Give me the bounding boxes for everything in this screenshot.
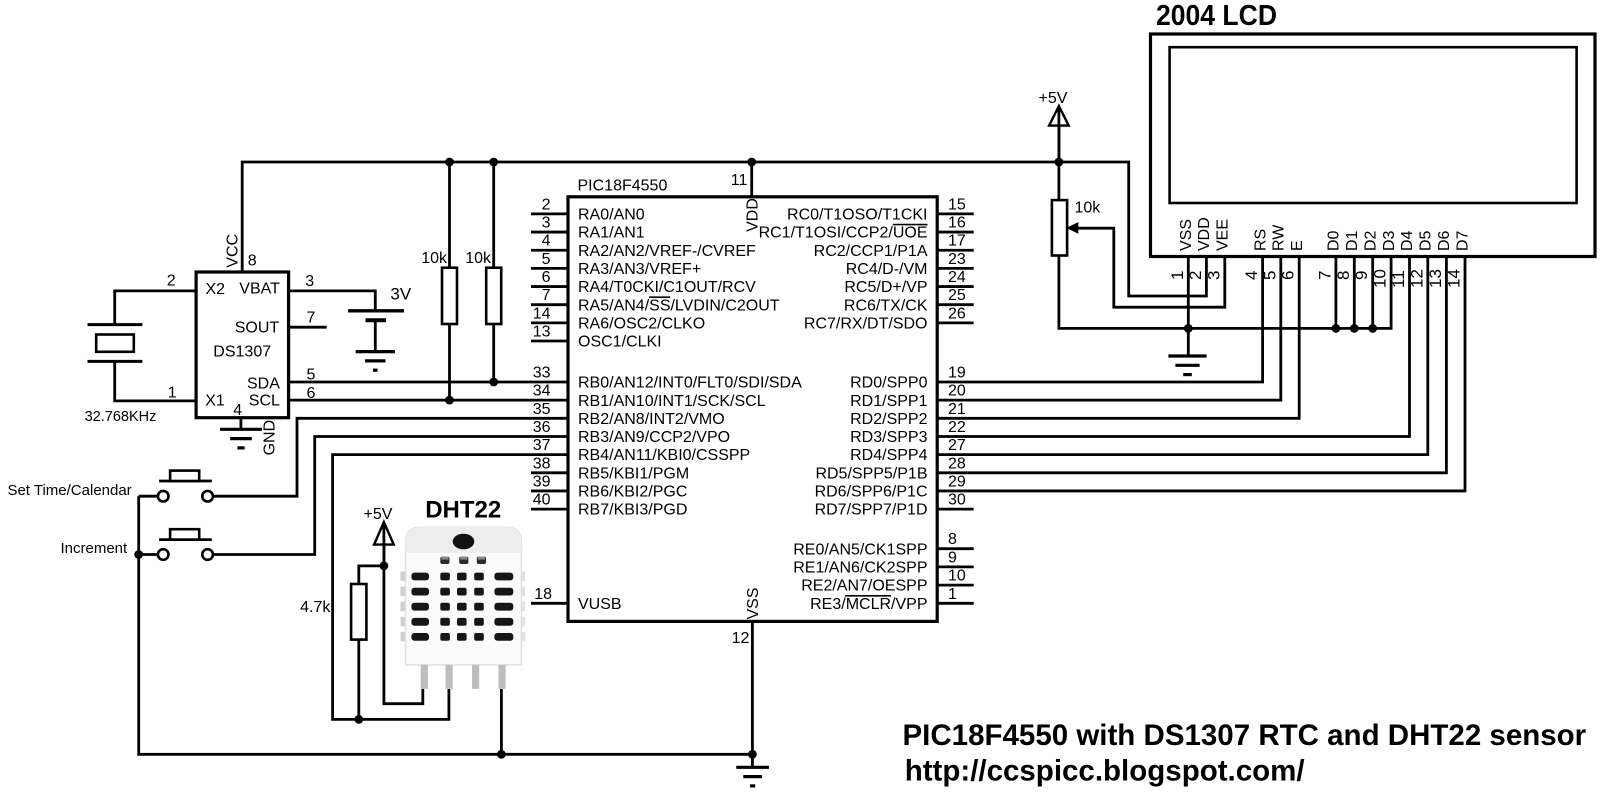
svg-text:RB4/AN11/KBI0/CSSPP: RB4/AN11/KBI0/CSSPP xyxy=(578,447,750,464)
svg-text:33: 33 xyxy=(533,365,551,382)
svg-text:2: 2 xyxy=(167,272,176,289)
svg-text:3: 3 xyxy=(542,215,551,232)
svg-text:4: 4 xyxy=(542,233,551,250)
svg-text:VBAT: VBAT xyxy=(239,280,280,297)
svg-text:8: 8 xyxy=(1334,271,1353,280)
svg-text:VSS: VSS xyxy=(1178,219,1195,251)
svg-text:5: 5 xyxy=(542,251,551,268)
svg-text:Increment: Increment xyxy=(60,540,128,557)
svg-text:RA1/AN1: RA1/AN1 xyxy=(578,225,645,242)
svg-text:25: 25 xyxy=(948,287,966,304)
svg-text:8: 8 xyxy=(248,252,257,269)
svg-text:RD0/SPP0: RD0/SPP0 xyxy=(850,375,927,392)
svg-text:PIC18F4550 with DS1307 RTC and: PIC18F4550 with DS1307 RTC and DHT22 sen… xyxy=(903,719,1587,752)
svg-text:24: 24 xyxy=(948,269,966,286)
svg-text:26: 26 xyxy=(948,305,966,322)
svg-text:E: E xyxy=(1289,240,1306,251)
svg-text:3: 3 xyxy=(1204,271,1223,280)
svg-text:29: 29 xyxy=(948,473,966,490)
svg-text:10k: 10k xyxy=(465,250,492,267)
svg-text:D1: D1 xyxy=(1344,230,1361,251)
svg-text:RC6/TX/CK: RC6/TX/CK xyxy=(844,297,928,314)
svg-text:RE0/AN5/CK1SPP: RE0/AN5/CK1SPP xyxy=(793,541,927,558)
svg-text:39: 39 xyxy=(533,473,551,490)
svg-text:RB1/AN10/INT1/SCK/SCL: RB1/AN10/INT1/SCK/SCL xyxy=(578,393,766,410)
svg-text:7: 7 xyxy=(307,309,316,326)
svg-text:RD3/SPP3: RD3/SPP3 xyxy=(850,429,927,446)
svg-text:4: 4 xyxy=(1242,271,1261,280)
svg-text:RE1/AN6/CK2SPP: RE1/AN6/CK2SPP xyxy=(793,560,927,577)
svg-text:40: 40 xyxy=(533,492,551,509)
svg-text:3: 3 xyxy=(305,273,314,290)
svg-text:4: 4 xyxy=(233,402,242,419)
svg-text:RW: RW xyxy=(1271,224,1288,251)
svg-text:RD2/SPP2: RD2/SPP2 xyxy=(850,411,927,428)
svg-text:35: 35 xyxy=(533,401,551,418)
svg-text:X1: X1 xyxy=(205,393,225,410)
svg-text:RD5/SPP5/P1B: RD5/SPP5/P1B xyxy=(815,465,927,482)
svg-text:OSC1/CLKI: OSC1/CLKI xyxy=(578,334,662,351)
svg-text:D5: D5 xyxy=(1418,230,1435,251)
svg-text:VCC: VCC xyxy=(224,234,241,268)
svg-text:36: 36 xyxy=(533,419,551,436)
svg-text:1: 1 xyxy=(1168,271,1187,280)
svg-text:5: 5 xyxy=(1260,271,1279,280)
svg-text:30: 30 xyxy=(948,492,966,509)
svg-text:RE2/AN7/OESPP: RE2/AN7/OESPP xyxy=(801,578,927,595)
svg-text:RB7/KBI3/PGD: RB7/KBI3/PGD xyxy=(578,502,687,519)
svg-text:RA6/OSC2/CLKO: RA6/OSC2/CLKO xyxy=(578,315,705,332)
svg-text:RB6/KBI2/PGC: RB6/KBI2/PGC xyxy=(578,484,687,501)
svg-text:GND: GND xyxy=(262,420,279,456)
svg-text:http://ccspicc.blogspot.com/: http://ccspicc.blogspot.com/ xyxy=(905,755,1305,788)
svg-text:3V: 3V xyxy=(390,285,411,304)
svg-text:6: 6 xyxy=(307,385,316,402)
svg-text:VEE: VEE xyxy=(1215,219,1232,251)
svg-text:RC7/RX/DT/SDO: RC7/RX/DT/SDO xyxy=(804,315,928,332)
svg-text:38: 38 xyxy=(533,455,551,472)
svg-text:28: 28 xyxy=(948,455,966,472)
svg-text:23: 23 xyxy=(948,251,966,268)
svg-text:RD1/SPP1: RD1/SPP1 xyxy=(850,393,927,410)
svg-text:8: 8 xyxy=(948,531,957,548)
svg-text:11: 11 xyxy=(731,172,748,189)
svg-text:20: 20 xyxy=(948,383,966,400)
svg-text:34: 34 xyxy=(533,383,551,400)
svg-text:RS: RS xyxy=(1252,229,1269,251)
svg-text:Set Time/Calendar: Set Time/Calendar xyxy=(7,482,131,499)
svg-text:PIC18F4550: PIC18F4550 xyxy=(578,177,668,194)
svg-text:7: 7 xyxy=(542,287,551,304)
svg-text:DS1307: DS1307 xyxy=(213,343,271,360)
svg-text:27: 27 xyxy=(948,437,966,454)
svg-text:D4: D4 xyxy=(1399,230,1416,251)
svg-text:15: 15 xyxy=(948,196,966,213)
svg-text:X2: X2 xyxy=(206,281,226,298)
svg-text:RC0/T1OSO/T1CKI: RC0/T1OSO/T1CKI xyxy=(787,207,927,224)
svg-text:SCL: SCL xyxy=(249,393,280,410)
svg-text:1: 1 xyxy=(948,586,957,603)
svg-text:2: 2 xyxy=(542,196,551,213)
svg-text:14: 14 xyxy=(1445,269,1464,288)
svg-text:32.768KHz: 32.768KHz xyxy=(85,409,157,425)
svg-text:SOUT: SOUT xyxy=(235,319,280,336)
svg-text:22: 22 xyxy=(948,419,966,436)
svg-text:11: 11 xyxy=(1389,270,1408,288)
svg-text:12: 12 xyxy=(732,630,750,647)
svg-text:RA2/AN2/VREF-/CVREF: RA2/AN2/VREF-/CVREF xyxy=(578,243,756,260)
svg-text:2: 2 xyxy=(1186,271,1205,280)
svg-text:12: 12 xyxy=(1407,269,1426,288)
svg-text:5: 5 xyxy=(307,367,316,384)
svg-text:6: 6 xyxy=(1279,271,1298,280)
svg-text:VDD: VDD xyxy=(745,198,762,232)
svg-text:RD7/SPP7/P1D: RD7/SPP7/P1D xyxy=(815,502,928,519)
svg-text:D2: D2 xyxy=(1362,230,1379,251)
svg-text:RA0/AN0: RA0/AN0 xyxy=(578,207,645,224)
svg-text:RC4/D-/VM: RC4/D-/VM xyxy=(846,261,928,278)
svg-text:RB3/AN9/CCP2/VPO: RB3/AN9/CCP2/VPO xyxy=(578,429,730,446)
svg-text:16: 16 xyxy=(948,215,966,232)
svg-text:RC5/D+/VP: RC5/D+/VP xyxy=(844,279,927,296)
svg-text:SDA: SDA xyxy=(247,375,280,392)
svg-text:17: 17 xyxy=(948,233,966,250)
svg-text:10k: 10k xyxy=(421,250,448,267)
svg-text:9: 9 xyxy=(1352,271,1371,280)
svg-text:RD4/SPP4: RD4/SPP4 xyxy=(850,447,927,464)
svg-text:1: 1 xyxy=(168,385,177,402)
svg-text:37: 37 xyxy=(533,437,551,454)
svg-text:D3: D3 xyxy=(1381,230,1398,251)
svg-text:RB5/KBI1/PGM: RB5/KBI1/PGM xyxy=(578,465,689,482)
svg-text:D6: D6 xyxy=(1436,230,1453,251)
svg-text:DHT22: DHT22 xyxy=(425,497,501,524)
svg-text:19: 19 xyxy=(948,365,966,382)
svg-text:RB0/AN12/INT0/FLT0/SDI/SDA: RB0/AN12/INT0/FLT0/SDI/SDA xyxy=(578,375,802,392)
svg-text:+5V: +5V xyxy=(1039,90,1068,107)
svg-text:D7: D7 xyxy=(1455,230,1472,251)
svg-text:9: 9 xyxy=(948,549,957,566)
svg-text:14: 14 xyxy=(533,305,551,322)
svg-text:10: 10 xyxy=(948,568,966,585)
svg-text:10k: 10k xyxy=(1075,200,1102,217)
svg-text:4.7k: 4.7k xyxy=(300,599,331,616)
svg-text:21: 21 xyxy=(948,401,966,418)
svg-text:13: 13 xyxy=(1426,269,1445,288)
svg-text:10: 10 xyxy=(1371,269,1390,288)
svg-text:RA3/AN3/VREF+: RA3/AN3/VREF+ xyxy=(578,261,701,278)
svg-text:RA4/T0CKI/C1OUT/RCV: RA4/T0CKI/C1OUT/RCV xyxy=(578,279,756,296)
svg-text:RA5/AN4/SS/LVDIN/C2OUT: RA5/AN4/SS/LVDIN/C2OUT xyxy=(578,297,780,314)
svg-text:RE3/MCLR/VPP: RE3/MCLR/VPP xyxy=(810,596,927,613)
svg-text:+5V: +5V xyxy=(364,506,393,523)
svg-text:RB2/AN8/INT2/VMO: RB2/AN8/INT2/VMO xyxy=(578,411,725,428)
svg-text:VUSB: VUSB xyxy=(578,596,622,613)
svg-text:VSS: VSS xyxy=(745,587,762,619)
svg-text:6: 6 xyxy=(542,269,551,286)
svg-text:RD6/SPP6/P1C: RD6/SPP6/P1C xyxy=(815,484,928,501)
svg-text:2004 LCD: 2004 LCD xyxy=(1156,0,1277,32)
svg-text:RC1/T1OSI/CCP2/UOE: RC1/T1OSI/CCP2/UOE xyxy=(759,225,928,242)
svg-text:VDD: VDD xyxy=(1196,217,1213,251)
svg-text:13: 13 xyxy=(533,324,551,341)
svg-text:18: 18 xyxy=(534,586,552,603)
svg-text:D0: D0 xyxy=(1326,230,1343,251)
svg-text:7: 7 xyxy=(1315,271,1334,280)
svg-text:RC2/CCP1/P1A: RC2/CCP1/P1A xyxy=(814,243,928,260)
